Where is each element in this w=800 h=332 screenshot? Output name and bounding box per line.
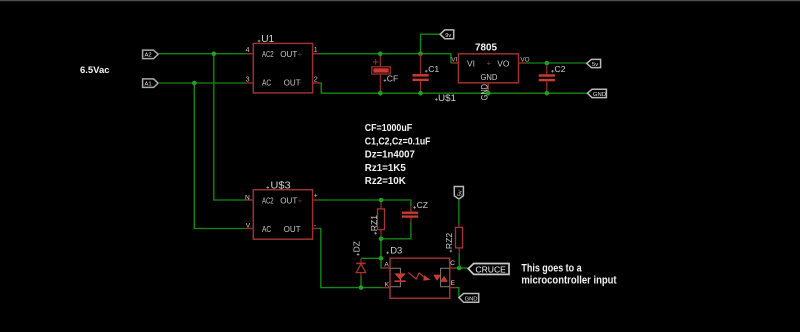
- svg-text:OUT: OUT: [280, 50, 297, 59]
- svg-text:C1: C1: [428, 64, 439, 74]
- wire U1 pin2 down to GND rail: [320, 83, 588, 93]
- wire A1 branch down to U$3 V: [194, 83, 246, 229]
- junction: [545, 91, 550, 96]
- junction: [359, 285, 364, 290]
- svg-text:Dz=1n4007: Dz=1n4007: [365, 150, 415, 161]
- wire A2 to U1 pin4: [158, 53, 246, 55]
- svg-text:GND: GND: [481, 72, 498, 82]
- svg-text:U1: U1: [261, 34, 274, 45]
- diode DZ: [351, 241, 365, 277]
- svg-text:K: K: [385, 281, 390, 288]
- wire A2 branch down to U$3 N: [214, 54, 246, 200]
- optocoupler D3: [382, 246, 455, 299]
- annotation microcontroller note: [521, 262, 617, 286]
- svg-text:3: 3: [246, 74, 250, 83]
- svg-text:-: -: [298, 225, 301, 234]
- svg-text:-: -: [314, 222, 316, 229]
- svg-text:RZ2: RZ2: [444, 233, 454, 249]
- flag CRUCE: [468, 264, 509, 275]
- wire DZ top to A node: [361, 257, 381, 259]
- wire C pin to CRUCE: [455, 267, 468, 269]
- capacitor C2: [539, 63, 566, 93]
- svg-text:+: +: [298, 196, 303, 205]
- svg-text:4: 4: [246, 45, 250, 54]
- svg-text:GND: GND: [593, 92, 606, 98]
- svg-text:RZ1: RZ1: [369, 215, 379, 231]
- resistor RZ1: [369, 200, 385, 239]
- top window border: [0, 0, 800, 1]
- svg-text:+: +: [487, 58, 491, 67]
- svg-text:6.5Vac: 6.5Vac: [80, 65, 110, 76]
- junction: [378, 91, 383, 96]
- svg-text:Rz1=1K5: Rz1=1K5: [365, 163, 406, 174]
- svg-text:+: +: [314, 193, 318, 200]
- svg-text:AC: AC: [262, 78, 271, 87]
- flag 5v: [587, 59, 601, 68]
- bridge rectifier U1: [246, 34, 320, 93]
- capacitor C1: [412, 54, 439, 93]
- svg-text:U$1: U$1: [438, 93, 456, 104]
- wire U$3 + to RZ1/CZ: [318, 200, 411, 206]
- svg-text:5v: 5v: [458, 190, 464, 196]
- wire A1 to U1 pin3: [158, 82, 246, 84]
- svg-text:9v: 9v: [445, 33, 451, 39]
- svg-text:DZ: DZ: [351, 241, 361, 252]
- svg-text:5v: 5v: [592, 62, 598, 68]
- flag GND (bottom): [459, 294, 479, 303]
- svg-text:E: E: [451, 280, 456, 287]
- wire VO to 5v flag: [526, 62, 587, 64]
- svg-text:AC2: AC2: [262, 50, 274, 59]
- svg-text:This goes to a: This goes to a: [521, 262, 581, 274]
- svg-text:OUT: OUT: [280, 197, 297, 206]
- svg-text:+: +: [298, 50, 303, 59]
- svg-text:Rz2=10K: Rz2=10K: [365, 176, 406, 187]
- capacitor CZ: [402, 200, 428, 223]
- junction: [379, 256, 384, 261]
- svg-text:AC2: AC2: [262, 197, 274, 206]
- svg-text:CZ: CZ: [417, 200, 428, 210]
- wire RZ2 bottom to C node: [458, 254, 460, 268]
- connector flag A2: [143, 50, 159, 59]
- wire U1 pin1 to VI corner: [320, 54, 451, 63]
- wire DZ bottom to K row: [360, 277, 362, 288]
- wire 9v tap: [421, 34, 441, 54]
- svg-text:microcontroller input: microcontroller input: [521, 274, 617, 286]
- svg-text:N: N: [245, 194, 250, 201]
- svg-text:A1: A1: [145, 81, 152, 87]
- junction: [379, 237, 384, 242]
- svg-text:CRUCE: CRUCE: [475, 264, 506, 274]
- junction: [378, 51, 383, 56]
- connector flag A1: [143, 79, 159, 88]
- svg-text:VI: VI: [467, 58, 475, 68]
- wire RZ1 bottom down to A node: [381, 239, 382, 268]
- flag GND (top right): [587, 89, 606, 98]
- svg-text:C: C: [450, 260, 455, 267]
- wire CZ bottom to RZ1 bottom: [381, 223, 411, 239]
- resistor RZ2: [444, 225, 462, 255]
- svg-text:-: -: [298, 78, 301, 87]
- svg-text:1: 1: [314, 45, 318, 54]
- annotation value list: [365, 123, 431, 187]
- wire 5v flag to RZ2: [458, 199, 460, 224]
- junction: [418, 91, 423, 96]
- capacitor CF: [372, 54, 398, 93]
- svg-text:2: 2: [314, 74, 318, 83]
- svg-text:A2: A2: [145, 53, 152, 59]
- bridge rectifier U$3: [245, 180, 318, 239]
- svg-text:GND: GND: [465, 296, 478, 302]
- svg-text:VO: VO: [497, 58, 510, 68]
- svg-text:A: A: [384, 261, 389, 268]
- svg-text:V: V: [246, 223, 251, 230]
- svg-text:AC: AC: [262, 225, 271, 234]
- junction: [486, 91, 491, 96]
- junction: [457, 266, 462, 271]
- svg-text:CF=1000uF: CF=1000uF: [365, 123, 412, 134]
- svg-text:7805: 7805: [475, 43, 498, 54]
- flag 9v: [440, 30, 454, 39]
- junction: [545, 61, 550, 66]
- svg-text:C2: C2: [555, 64, 566, 74]
- svg-text:CF: CF: [387, 74, 398, 84]
- junction: [212, 51, 217, 56]
- flag 5v (vertical): [454, 187, 463, 200]
- junction: [418, 51, 423, 56]
- svg-text:D3: D3: [390, 246, 402, 257]
- svg-text:U$3: U$3: [270, 180, 291, 191]
- regulator 7805 U$1: [435, 43, 530, 104]
- svg-text:VI: VI: [451, 57, 457, 64]
- junction: [379, 198, 384, 203]
- wire U$3 - down to K row: [318, 229, 382, 288]
- wire E pin to GND flag: [455, 288, 459, 298]
- svg-text:C1,C2,Cz=0.1uF: C1,C2,Cz=0.1uF: [365, 136, 431, 147]
- junction: [192, 81, 197, 86]
